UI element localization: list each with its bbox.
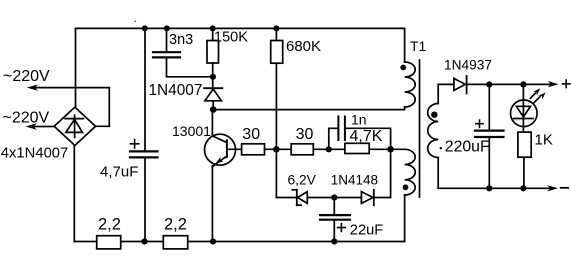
resistor R 1K [518, 132, 531, 157]
wire secondary top lead [438, 84, 454, 103]
node AC1 arrowhead [27, 84, 39, 90]
diode D 1N4148 [361, 192, 373, 204]
wire 3n3 bottom to node [167, 57, 213, 76]
wire base lead [227, 148, 242, 150]
capacitor 4,7uF [130, 150, 158, 152]
capacitor C 220uF [475, 130, 504, 132]
svg-text:2,2: 2,2 [98, 215, 121, 233]
wire zener row left [276, 197, 296, 199]
diode D 1N4007 [204, 87, 222, 89]
wire 150K branch top [212, 28, 214, 40]
wire 220uF bottom [488, 137, 490, 188]
svg-text:4,7K: 4,7K [350, 128, 383, 145]
wire feedback bottom lead [404, 195, 406, 242]
svg-text:1K: 1K [535, 132, 553, 149]
node junction dots [134, 21, 526, 245]
svg-text:T1: T1 [410, 38, 427, 54]
svg-text:13001: 13001 [172, 123, 211, 139]
svg-text:30: 30 [296, 126, 314, 143]
resistor R 2,2 #2 [163, 236, 187, 249]
resistor R 2,2 #1 [97, 236, 121, 249]
wire bridge top to rail [75, 28, 77, 107]
svg-text:1n: 1n [351, 111, 367, 127]
wire 22uF top [333, 198, 335, 215]
node AC2 arrowhead [25, 123, 37, 129]
wire AC input 2 [33, 126, 54, 128]
transformer T1 feedback winding [405, 149, 416, 195]
node plus sign output [563, 80, 570, 87]
svg-text:150K: 150K [214, 30, 248, 46]
transformer T1 core [419, 60, 421, 197]
wire collector [211, 110, 213, 137]
node minus sign output [561, 187, 568, 189]
wire minus rail [438, 187, 551, 189]
transformer T1 primary winding [405, 62, 416, 107]
svg-text:680K: 680K [286, 38, 321, 55]
resistor R 30 #2 [291, 144, 313, 155]
wire LED branch [522, 84, 524, 132]
wire 680K down through base row to zener row [275, 63, 277, 197]
svg-text:6,2V: 6,2V [288, 173, 317, 188]
wire plus rail [467, 83, 552, 85]
svg-text:1N4148: 1N4148 [331, 173, 378, 188]
svg-text:~220V: ~220V [3, 110, 50, 127]
bridge rectifier 4x1N4007 [54, 107, 95, 145]
LED flash arrows [530, 93, 535, 98]
wire 220uF branch top [488, 84, 490, 130]
svg-text:3n3: 3n3 [169, 32, 193, 48]
wire 1K bottom [523, 157, 525, 188]
resistor R 150K [207, 41, 219, 64]
wire 680K branch [275, 28, 277, 40]
zener D 6,2V [296, 190, 298, 205]
wire cap 4,7uF branch [144, 28, 146, 151]
wire AC input 1 [34, 88, 109, 127]
capacitor C 22uF [320, 214, 350, 216]
wire collector node to transformer primary [213, 107, 404, 110]
svg-text:30: 30 [242, 126, 260, 143]
wire bridge bottom [73, 146, 75, 242]
svg-text:1N4007: 1N4007 [149, 82, 203, 99]
LED D1 [511, 100, 538, 127]
node minus arrowhead [547, 185, 558, 191]
svg-text:1N4937: 1N4937 [444, 57, 492, 72]
wire bottom rail [74, 241, 404, 243]
capacitor C 1n loop [329, 128, 338, 149]
wire 1N4148 to right riser [374, 149, 391, 197]
transistor Q 13001 [205, 134, 236, 165]
resistor R 30 #1 [242, 144, 265, 155]
resistor R 4,7K [345, 143, 369, 153]
diode D 1N4937 [454, 78, 465, 90]
wire 22uF bottom [333, 220, 335, 242]
svg-text:~220V: ~220V [3, 68, 50, 85]
capacitor 3n3 [153, 51, 180, 53]
node plus sign 4,7uF [130, 140, 138, 148]
wire base row seg2 [265, 148, 292, 150]
node plus sign 22uF [338, 224, 346, 232]
wire secondary bottom lead [437, 158, 439, 189]
wire emitter down [211, 166, 213, 242]
wire zener to node [307, 197, 361, 199]
wire diode to collector node [212, 101, 214, 110]
wire 150K to diode [212, 63, 214, 88]
transformer T1 secondary winding [428, 104, 439, 158]
node plus arrowhead [548, 81, 559, 87]
svg-text:4,7uF: 4,7uF [100, 163, 138, 180]
svg-text:2,2: 2,2 [164, 215, 187, 233]
wire base row seg3 [313, 148, 345, 150]
wire base row seg4 [369, 148, 404, 150]
node plus sign 220uF [476, 120, 483, 127]
transformer T1 primary top lead [404, 28, 406, 62]
wire top rail [76, 27, 405, 29]
svg-text:220uF: 220uF [445, 139, 490, 156]
svg-text:22uF: 22uF [350, 223, 384, 239]
wire cap 3n3 branch [166, 28, 168, 52]
svg-text:4x1N4007: 4x1N4007 [1, 146, 68, 162]
resistor R 680K [271, 41, 283, 64]
